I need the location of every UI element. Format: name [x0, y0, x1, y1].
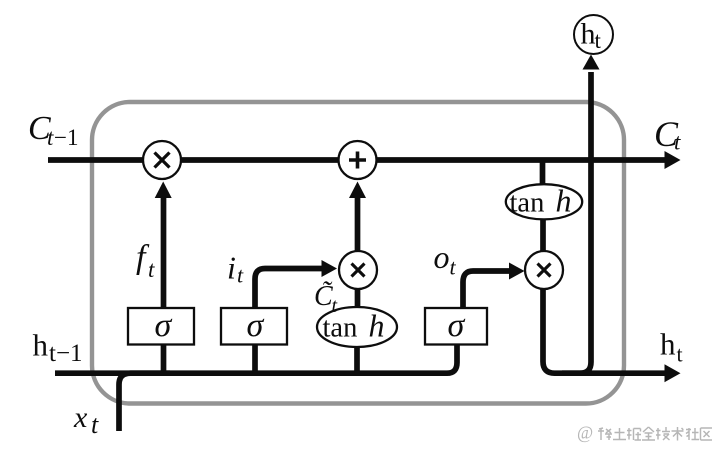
svg-text:σ: σ [448, 307, 466, 344]
svg-text:σ: σ [247, 307, 265, 344]
svg-text:σ: σ [155, 307, 173, 344]
svg-text:h: h [369, 308, 385, 344]
svg-text:t: t [674, 130, 681, 155]
svg-text:tan: tan [510, 188, 545, 219]
svg-text:t: t [237, 263, 244, 288]
svg-text:i: i [227, 250, 236, 286]
svg-text:h: h [660, 327, 676, 362]
svg-text:o: o [434, 239, 450, 275]
svg-text:t: t [450, 255, 457, 280]
svg-text:h: h [581, 18, 596, 51]
svg-text:@: @ [577, 423, 593, 443]
svg-text:t: t [677, 342, 683, 367]
svg-text:t: t [91, 410, 99, 439]
svg-text:t−1: t−1 [49, 340, 83, 367]
svg-text:x: x [73, 401, 88, 434]
svg-text:C̃: C̃ [314, 281, 333, 312]
svg-text:t: t [148, 257, 155, 282]
svg-text:tan: tan [323, 313, 358, 344]
svg-text:−1: −1 [54, 125, 78, 150]
svg-text:h: h [33, 328, 49, 363]
svg-text:t: t [595, 28, 602, 53]
svg-text:t: t [47, 125, 54, 150]
svg-text:h: h [556, 183, 572, 219]
